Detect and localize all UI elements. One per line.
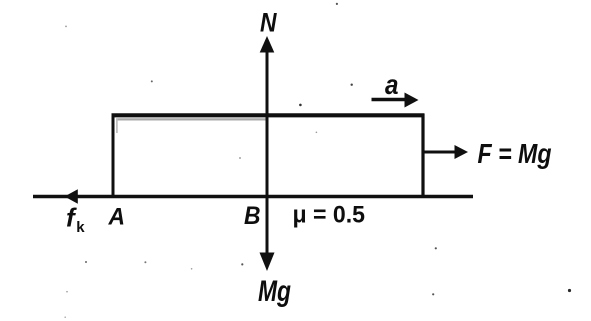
svg-text:μ = 0.5: μ = 0.5	[293, 202, 366, 229]
scan noise specks	[568, 289, 571, 292]
N arrowhead	[260, 36, 275, 53]
svg-text:N: N	[260, 8, 277, 38]
friction arrowhead f_k pointing left on ground line	[65, 189, 78, 204]
acceleration a arrowhead	[405, 93, 419, 108]
inner gray shadow on left edge of block	[116, 119, 118, 134]
F force arrow shaft	[423, 151, 457, 154]
vertical line through block (N and Mg axis)	[266, 44, 269, 260]
inner gray shadow under top edge of block	[116, 118, 266, 120]
svg-text:Mg: Mg	[258, 275, 291, 308]
block rectangle left edge	[112, 114, 115, 197]
block rectangle top edge	[112, 113, 425, 117]
svg-text:A: A	[108, 204, 125, 231]
svg-text:a: a	[385, 69, 399, 100]
ground line	[33, 195, 473, 198]
Mg arrowhead	[260, 253, 275, 272]
F force arrowhead	[455, 145, 469, 159]
svg-text:k: k	[76, 219, 85, 236]
svg-text:B: B	[244, 202, 261, 230]
block rectangle right edge	[421, 114, 424, 197]
svg-text:F = Mg: F = Mg	[478, 138, 552, 169]
acceleration a arrow shaft	[372, 98, 409, 101]
